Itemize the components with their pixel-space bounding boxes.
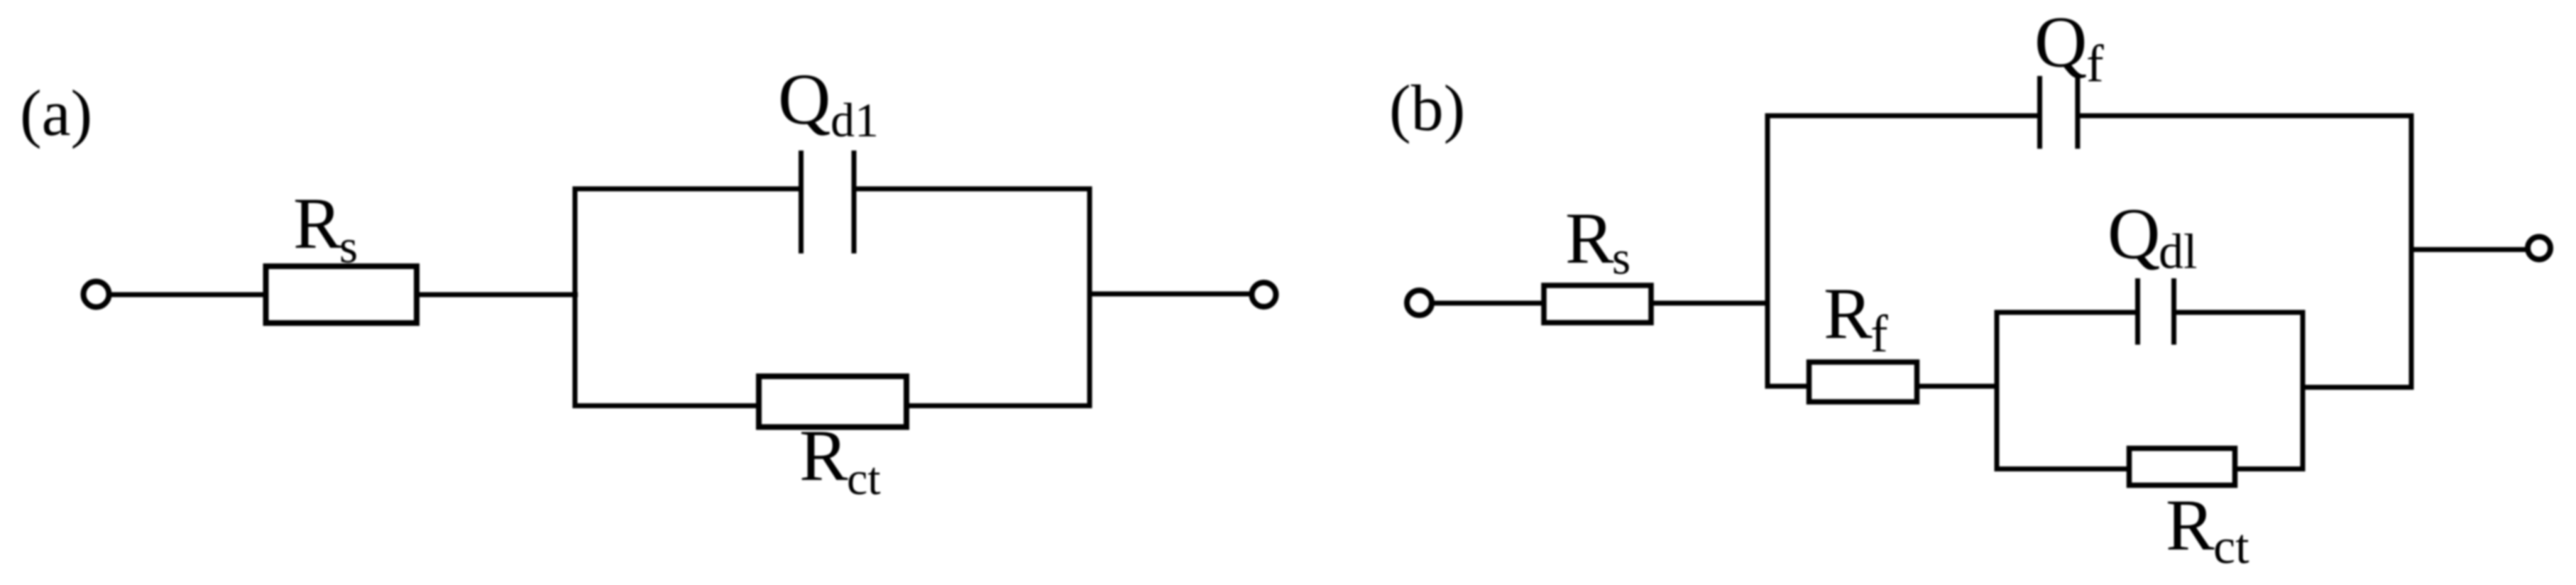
svg-text:f: f [2086, 35, 2104, 94]
wire terminal to Rs (b) [1432, 301, 1547, 306]
capacitor Qd1 left plate (a) [799, 151, 804, 253]
terminal right (b) [2528, 237, 2550, 260]
svg-text:Q: Q [2108, 194, 2160, 275]
wire Rs to outer block (b) [1651, 301, 1769, 306]
resistor Rf (b) [1809, 362, 1917, 402]
svg-text:dl: dl [2159, 225, 2197, 280]
svg-text:R: R [293, 183, 342, 264]
svg-text:s: s [1612, 232, 1630, 285]
wire terminal to Rs (a) [111, 292, 268, 297]
terminal left (b) [1407, 290, 1432, 315]
svg-text:(a): (a) [20, 77, 92, 149]
terminal right (a) [1252, 283, 1276, 307]
svg-text:(b): (b) [1389, 72, 1465, 144]
wire outer block to right terminal (b) [2411, 247, 2527, 252]
resistor Rct (a) [759, 376, 906, 427]
svg-text:ct: ct [2213, 520, 2249, 574]
outer block top-left frame (b) [1767, 116, 2040, 386]
svg-text:R: R [1824, 273, 1873, 354]
capacitor Qdl right plate (b) [2171, 278, 2176, 345]
resistor Rs (a) [266, 266, 417, 323]
svg-text:R: R [799, 415, 848, 496]
svg-text:R: R [2166, 485, 2215, 566]
capacitor Qd1 right plate (a) [852, 151, 857, 253]
capacitor Qf left plate (b) [2037, 76, 2042, 149]
capacitor Qf right plate (b) [2075, 76, 2080, 149]
resistor Rs (b) [1544, 285, 1651, 323]
parallel block frame (a) [575, 189, 1090, 406]
svg-text:d1: d1 [831, 93, 879, 147]
capacitor Qdl left plate (b) [2135, 278, 2140, 345]
wire block to right terminal (a) [1090, 292, 1251, 297]
svg-text:ct: ct [847, 453, 881, 505]
resistor Rct (b) [2130, 449, 2235, 486]
svg-text:s: s [339, 221, 358, 273]
svg-text:f: f [1870, 305, 1888, 363]
svg-text:Q: Q [2034, 2, 2087, 83]
svg-text:R: R [1565, 198, 1614, 279]
svg-text:Q: Q [778, 59, 831, 140]
wire Rs to parallel block (a) [417, 292, 578, 297]
outer block top-right frame (b) [2078, 116, 2411, 388]
terminal left (a) [84, 282, 109, 307]
inner block frame (b) [1997, 312, 2303, 469]
